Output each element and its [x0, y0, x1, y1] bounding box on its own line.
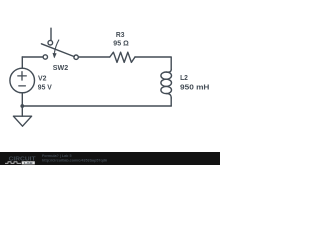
wire inductor bottom to corner: [170, 98, 172, 106]
wire from resistor to right rail corner: [135, 57, 171, 70]
wire from switch right contact to resistor: [78, 56, 109, 58]
wire top stub above switch: [50, 28, 52, 40]
bottom wire from inductor corner to junction: [22, 105, 171, 107]
inductor L2 coil: [166, 70, 171, 73]
watermark black bar: [0, 152, 220, 165]
switch SW2 right contact circle: [74, 55, 78, 59]
svg-text:SW2: SW2: [53, 65, 69, 72]
svg-text:L2: L2: [180, 75, 188, 82]
switch SW2 actuation arrow: [55, 40, 59, 53]
resistor R3 zigzag: [110, 52, 135, 62]
wire source bottom to junction: [21, 93, 23, 106]
V2 plus sign: [18, 72, 27, 80]
switch SW2 pivot circle: [48, 40, 53, 45]
ground triangle: [13, 116, 31, 126]
V2 minus sign: [19, 85, 26, 87]
junction node dot: [20, 104, 24, 108]
svg-text:950 mH: 950 mH: [180, 84, 209, 91]
watermark logo squarewave: [5, 162, 21, 164]
switch SW2 left contact circle: [43, 55, 47, 59]
svg-text:95 V: 95 V: [38, 85, 52, 92]
svg-text:LAB: LAB: [24, 161, 33, 165]
svg-text:V2: V2: [38, 75, 47, 82]
svg-text:95 Ω: 95 Ω: [113, 41, 129, 48]
wire switch row to source top: [21, 57, 23, 68]
wire from left rail to switch left contact: [22, 56, 43, 58]
watermark logo LAB box: [22, 161, 35, 164]
switch SW2 blade: [41, 44, 74, 57]
svg-text:R3: R3: [116, 32, 125, 39]
voltage source V2 circle: [10, 68, 35, 93]
svg-text:http://circuitlab.com/c/4353Sa: http://circuitlab.com/c/4353Sap57qd6: [42, 157, 108, 162]
ground stub: [21, 106, 23, 116]
